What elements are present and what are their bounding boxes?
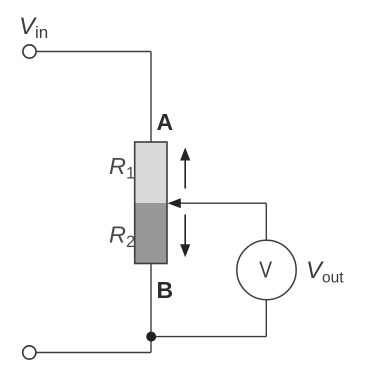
- svg-text:A: A: [157, 109, 174, 135]
- terminal bottom: [23, 346, 36, 359]
- terminal Vin: [23, 45, 36, 58]
- potentiometer body outline: [135, 142, 167, 264]
- wire top vertical: [150, 52, 152, 143]
- arrow up wiper motion: [180, 148, 190, 189]
- potentiometer R2 section: [135, 203, 167, 264]
- wiper arrow: [168, 198, 267, 208]
- wire wiper to voltmeter: [265, 203, 267, 240]
- svg-text:V: V: [259, 257, 272, 283]
- wire bottom horizontal from junction: [151, 336, 266, 338]
- wire top horizontal: [37, 51, 151, 53]
- wire voltmeter bottom: [265, 300, 267, 337]
- wire bottom: [36, 352, 151, 354]
- voltmeter U1: [237, 240, 296, 299]
- arrow down wiper motion: [180, 215, 190, 258]
- wire B vertical: [150, 263, 152, 353]
- potentiometer R1 section: [135, 142, 167, 203]
- svg-text:B: B: [157, 277, 174, 303]
- junction dot: [146, 332, 156, 342]
